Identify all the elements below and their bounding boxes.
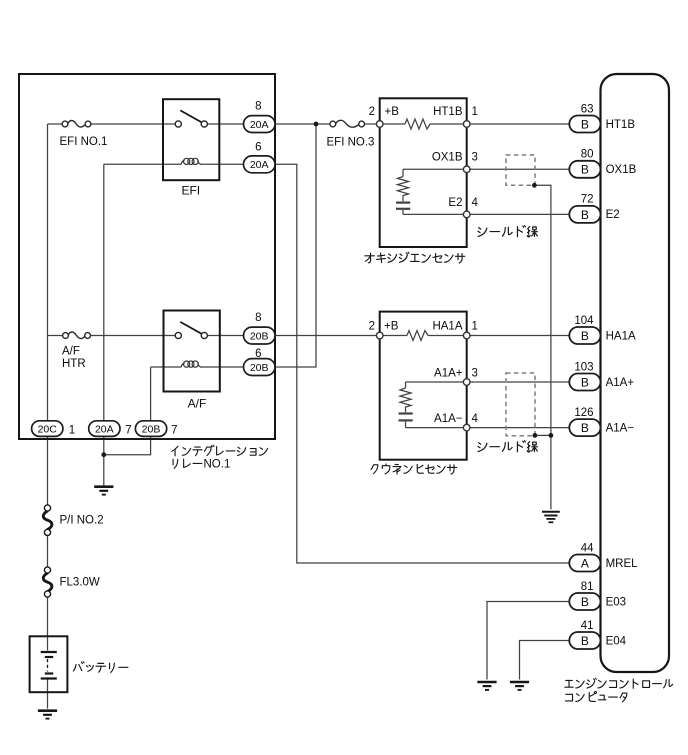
resistor A/F element (vertical zigzag): [400, 388, 411, 412]
ECU box (engine control computer): [601, 74, 670, 672]
svg-text:20A: 20A: [95, 424, 114, 436]
label engine control computer line 1 (katakana): [565, 678, 673, 688]
relay EFI coil: [181, 158, 201, 164]
A/F sensor box: [380, 312, 467, 460]
O2 sensor pin 2 (+B): [376, 121, 383, 128]
svg-text:2: 2: [369, 321, 375, 333]
svg-text:7: 7: [125, 425, 131, 437]
fusible link P/I NO.2: [43, 505, 52, 536]
wire 20A(8) capsule to EFI NO.3 fuse, node at x316: [275, 123, 330, 125]
wire EFI coil row to 20A(6) capsule: [104, 163, 182, 165]
svg-text:2: 2: [369, 106, 375, 118]
relay A/F coil: [181, 361, 201, 367]
svg-text:A/F: A/F: [62, 346, 80, 358]
wire A/F HTR fuse to A/F relay: [91, 335, 176, 337]
svg-text:20A: 20A: [250, 159, 269, 171]
svg-text:B: B: [581, 634, 589, 648]
svg-text:E04: E04: [606, 635, 627, 647]
svg-text:HT1B: HT1B: [606, 119, 636, 131]
svg-text:EFI NO.3: EFI NO.3: [327, 136, 375, 148]
wire OX1B pin3 to ECU capsule 80: [470, 168, 569, 170]
resistor HT1B heater (horizontal zigzag): [405, 119, 430, 129]
svg-text:20C: 20C: [38, 424, 58, 436]
wire E2 pin4 to ECU capsule 72: [470, 213, 569, 215]
wire resistor to HA1A pin1: [428, 335, 464, 337]
svg-text:4: 4: [472, 413, 479, 425]
wire A1A- internal bottom: [406, 422, 464, 428]
ECU pin capsule 72 E2: [569, 194, 619, 223]
wire between P/I NO.2 and FL3.0W links: [47, 535, 49, 567]
svg-text:OX1B: OX1B: [606, 164, 637, 176]
wire E04 to ground: [520, 641, 570, 680]
wire HT1B pin1 to ECU capsule 63: [470, 123, 569, 125]
svg-text:41: 41: [581, 620, 594, 632]
capsule 20A pin 7 (bottom row): [89, 421, 120, 437]
svg-text:104: 104: [574, 315, 594, 327]
battery box: [30, 636, 68, 692]
capsule 20A pin 6: [244, 156, 276, 173]
ECU pin capsule 44 MREL: [569, 542, 638, 571]
A/F sensor pin 3 (A1A+): [463, 379, 470, 386]
O2 sensor pin 3 (OX1B): [463, 166, 470, 173]
svg-text:103: 103: [574, 361, 593, 373]
svg-text:B: B: [581, 595, 589, 609]
svg-text:NO.1: NO.1: [204, 459, 231, 471]
capsule 20B pin 6: [244, 359, 276, 376]
svg-text:HT1B: HT1B: [433, 106, 463, 118]
shield box 1 (OX1B wire, dashed): [506, 155, 535, 185]
ECU pin capsule 81 E03: [569, 581, 626, 610]
wire A/F HTR row left stub: [48, 335, 63, 337]
svg-text:20B: 20B: [142, 424, 161, 436]
svg-text:B: B: [581, 375, 589, 389]
fuse EFI NO.1: [62, 120, 91, 127]
svg-text:A1A−: A1A−: [434, 413, 463, 425]
O2 sensor pin 4 (E2): [463, 211, 470, 218]
wire E2 internal bottom: [403, 210, 464, 214]
oxygen sensor box: [380, 98, 467, 247]
capsule 20B pin 8: [244, 327, 276, 344]
capacitor-style cell plates: [399, 412, 413, 414]
wire EFI NO.1 row left stub: [48, 123, 63, 125]
wire 20A(6) capsule down x297 to MREL capsule: [275, 164, 569, 563]
label A/F sensor (katakana): [371, 464, 457, 474]
ECU pin capsule 104 HA1A: [569, 315, 636, 344]
svg-text:A1A+: A1A+: [606, 377, 635, 389]
svg-text:A: A: [581, 556, 589, 570]
junction dot coils ground node: [101, 452, 106, 457]
svg-text:8: 8: [255, 101, 261, 113]
junction dot shield 2 drain: [533, 433, 538, 438]
svg-text:20B: 20B: [250, 362, 269, 374]
svg-text:HA1A: HA1A: [432, 321, 462, 333]
relay EFI switch blade: [180, 110, 201, 122]
svg-text:EFI: EFI: [181, 184, 200, 198]
ground E03: [477, 682, 496, 690]
A/F sensor pin 4 (A1A-): [463, 424, 470, 431]
wire A/F coil column x150 down through 20B(7) to ground node: [150, 367, 152, 421]
wire shield 2 drain to column x551: [535, 434, 551, 436]
wire HA1A pin1 to ECU capsule 104: [470, 335, 569, 337]
ground for relay coils (below 20A pin7): [94, 487, 113, 495]
A/F sensor internal circuit: [399, 382, 464, 428]
label shield wire 2 (katakana): [478, 441, 537, 452]
svg-text:OX1B: OX1B: [432, 152, 463, 164]
wire EFI NO.3 fuse to O2 sensor +B pin: [365, 123, 377, 125]
wire FL3.0W to battery: [47, 597, 49, 651]
svg-text:A1A−: A1A−: [606, 422, 635, 434]
capsule 20B pin 7 (bottom row): [135, 421, 166, 437]
svg-text:3: 3: [472, 368, 478, 380]
wire relay switch out to 20A(8) capsule: [207, 123, 243, 125]
svg-text:1: 1: [69, 425, 75, 437]
wire A/F relay switch out to 20B(8) capsule: [207, 335, 243, 337]
svg-text:+B: +B: [384, 321, 399, 333]
A/F sensor pin 1 (HA1A): [463, 332, 470, 339]
svg-text:E2: E2: [448, 197, 462, 209]
svg-text:A1A+: A1A+: [434, 368, 463, 380]
svg-text:B: B: [581, 329, 589, 343]
O2 sensor pin 1 (HT1B): [463, 121, 470, 128]
wire fuse to EFI relay pin: [91, 123, 175, 125]
svg-text:P/I NO.2: P/I NO.2: [60, 515, 104, 527]
svg-text:HTR: HTR: [62, 358, 86, 370]
resistor HA1A heater (horizontal zigzag): [407, 331, 428, 341]
wire EFI coil column x104 down to ground: [103, 164, 105, 486]
svg-text:A/F: A/F: [188, 397, 207, 411]
relay EFI box: [163, 99, 219, 180]
ECU pin capsule 80 OX1B: [569, 149, 636, 178]
wire resistor to HT1B pin1: [430, 123, 464, 125]
junction dot shield 1 drain: [532, 183, 537, 188]
svg-text:44: 44: [581, 542, 594, 554]
svg-text:B: B: [581, 163, 589, 177]
wire main battery column x47.5 from EFI NO.1 row to fusible link: [47, 124, 49, 505]
svg-text:20B: 20B: [250, 330, 269, 342]
relay A/F switch blade: [180, 322, 201, 334]
svg-text:B: B: [581, 208, 589, 222]
ground shield drain (4 bars): [542, 512, 560, 523]
wire node x316 down to 20B(6) row: [275, 124, 316, 367]
svg-text:20A: 20A: [250, 119, 269, 131]
label integration relay (katakana line 1): [172, 445, 268, 456]
svg-text:4: 4: [472, 197, 479, 209]
fusible link FL3.0W: [43, 567, 52, 597]
A/F sensor pin 2 (+B): [376, 332, 383, 339]
relay A/F box: [164, 311, 220, 392]
wire A1A+ pin3 to ECU capsule 103: [470, 381, 569, 383]
svg-text:81: 81: [581, 581, 594, 593]
O2 sensor internal circuit: [396, 169, 464, 214]
junction dot on shield ground column: [549, 433, 554, 438]
ECU pin capsule 41 E04: [569, 620, 626, 649]
fuse EFI NO.3: [330, 120, 365, 127]
ECU pin capsule 103 A1A+: [569, 361, 634, 390]
wire A/F +B pin to resistor R-HA1A: [383, 335, 407, 337]
junction dot at EFI NO.3 feed node x316: [314, 122, 319, 127]
capsule 20A pin 8: [244, 116, 276, 133]
label integration relay (line 2 katakana + NO.1): [173, 459, 202, 468]
label battery (katakana): [73, 662, 127, 673]
svg-text:E2: E2: [606, 209, 620, 221]
svg-text:B: B: [581, 117, 589, 131]
svg-text:1: 1: [472, 106, 478, 118]
shield box 2 (A1A wires, dashed): [506, 373, 535, 436]
wire A1A+ internal top: [406, 382, 464, 388]
fuse A/F HTR: [63, 332, 91, 339]
svg-text:6: 6: [255, 348, 261, 360]
capsule 20C pin 1 (bottom row): [32, 421, 63, 437]
svg-text:+B: +B: [385, 106, 400, 118]
svg-text:80: 80: [581, 149, 594, 161]
svg-text:1: 1: [472, 321, 478, 333]
svg-text:HA1A: HA1A: [606, 330, 636, 342]
svg-text:7: 7: [171, 425, 177, 437]
integration relay No.1 outer box: [19, 74, 275, 439]
battery cell plates: [41, 652, 57, 679]
wire O2 +B pin to resistor R-HT1B: [383, 123, 405, 125]
wire 20B(8) capsule to A/F sensor +B pin: [275, 335, 377, 337]
svg-text:E03: E03: [606, 596, 626, 608]
svg-text:B: B: [581, 421, 589, 435]
capacitor-style cell plates: [396, 202, 410, 204]
label engine control computer line 2 (katakana): [565, 691, 626, 701]
wire shield 1 drain to shield ground column x551: [534, 185, 551, 509]
relay A/F switch contacts: [175, 332, 207, 338]
ground battery negative: [38, 711, 57, 719]
label oxygen sensor (katakana): [365, 252, 465, 263]
wire OX1B internal top: [403, 169, 464, 176]
wire A1A- pin4 to ECU capsule 126: [470, 427, 569, 429]
svg-text:126: 126: [574, 407, 593, 419]
wire A/F coil row: [151, 366, 182, 368]
relay EFI switch contacts: [175, 121, 207, 127]
ECU pin capsule 63 HT1B: [569, 103, 635, 132]
svg-text:72: 72: [581, 194, 594, 206]
wire battery negative to ground: [47, 680, 49, 709]
wire E03 to ground: [487, 602, 569, 680]
resistor O2 element (vertical zigzag): [398, 177, 409, 202]
svg-text:MREL: MREL: [606, 558, 639, 570]
svg-text:FL3.0W: FL3.0W: [60, 577, 100, 589]
ground E04: [510, 682, 529, 690]
svg-text:3: 3: [472, 152, 478, 164]
svg-text:6: 6: [255, 141, 261, 153]
ECU pin capsule 126 A1A-: [569, 407, 634, 436]
svg-text:8: 8: [255, 312, 261, 324]
label shield wire 1 (katakana): [478, 226, 537, 237]
svg-text:63: 63: [581, 103, 594, 115]
svg-text:EFI NO.1: EFI NO.1: [60, 136, 108, 148]
